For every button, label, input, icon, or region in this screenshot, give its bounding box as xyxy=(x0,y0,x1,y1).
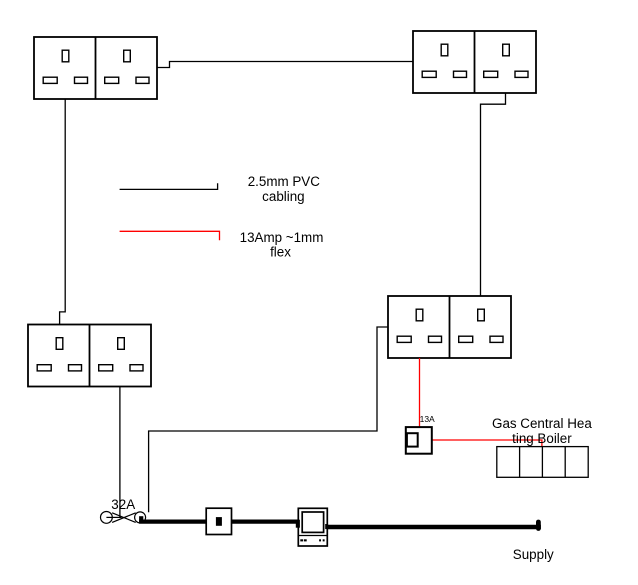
legend sample line: 2.5mm PVC cabling xyxy=(120,183,218,189)
legend sample line: 13Amp ~1mm flex (red) xyxy=(120,231,220,240)
gas central heating boiler xyxy=(497,447,588,478)
meter left terminal nub xyxy=(296,520,300,528)
electricity meter M1 xyxy=(298,508,327,546)
main switch SW1 xyxy=(206,508,231,534)
wire SK2 to SK3 (2.5mm ring cable) xyxy=(481,93,506,296)
svg-text:Gas Central Hea: Gas Central Hea xyxy=(492,416,592,431)
svg-text:13A: 13A xyxy=(420,414,435,424)
meter right terminal nub xyxy=(325,524,328,529)
svg-text:Supply: Supply xyxy=(513,547,554,562)
fused spur unit FS1 (13A) xyxy=(406,427,432,454)
red flex wire SK3 to fused spur FS1 xyxy=(419,358,421,427)
double socket outlet SK1 (top left) xyxy=(34,37,157,99)
red flex wire FS1 to boiler xyxy=(432,440,542,447)
double socket outlet SK2 (top right) xyxy=(413,31,536,93)
supply line: meter to supply tail xyxy=(327,525,541,530)
32A breaker symbol (circle-bowtie-circle) xyxy=(101,512,146,524)
svg-text:2.5mm PVC: 2.5mm PVC xyxy=(248,174,321,189)
svg-text:flex: flex xyxy=(270,244,291,259)
svg-text:cabling: cabling xyxy=(262,189,304,204)
svg-text:ting Boiler: ting Boiler xyxy=(512,431,572,446)
wire SK3 to 32A breaker (2.5mm ring cable) xyxy=(149,327,388,512)
wire SK1 to SK4 (2.5mm ring cable) xyxy=(60,99,66,325)
svg-text:32A: 32A xyxy=(111,497,135,512)
double socket outlet SK3 (middle right) xyxy=(388,296,511,358)
supply line: main switch to meter xyxy=(232,519,299,523)
supply line: breaker to main switch xyxy=(139,519,206,523)
svg-text:13Amp ~1mm: 13Amp ~1mm xyxy=(240,230,324,245)
wire SK1 to SK2 (2.5mm ring cable) xyxy=(157,62,413,68)
supply tail end hook xyxy=(536,522,541,529)
supply tail nub at breaker xyxy=(139,516,143,522)
double socket outlet SK4 (bottom left) xyxy=(28,325,151,387)
wire SK4 to 32A breaker (2.5mm ring cable) xyxy=(119,387,121,518)
